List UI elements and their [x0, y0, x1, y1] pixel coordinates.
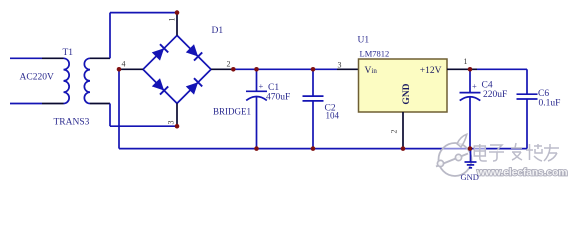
capacitor C1 bottom lead [256, 96, 258, 148]
wire AC source bottom lead [10, 103, 42, 105]
bridge diode bottom-right [186, 82, 198, 94]
svg-text:2: 2 [390, 130, 399, 134]
wire AC source top lead [10, 57, 42, 59]
capacitor C4 curved plate [460, 97, 481, 101]
svg-text:AC220V: AC220V [20, 73, 54, 83]
svg-text:220uF: 220uF [483, 90, 507, 100]
capacitor C4 bottom lead [469, 97, 471, 149]
bridge diode bottom-left [152, 78, 164, 90]
svg-text:4: 4 [122, 60, 126, 69]
wire ground rail [119, 148, 527, 150]
junction bridge pin1 [175, 10, 180, 15]
svg-text:LM7812: LM7812 [360, 49, 390, 59]
svg-text:470uF: 470uF [266, 93, 290, 103]
wire +12V to C6 [477, 68, 527, 70]
bridge pin 4 stub [119, 68, 143, 70]
svg-text:U1: U1 [358, 36, 370, 46]
watermark char 4 [526, 144, 542, 161]
wire secondary top to bridge pin 1 [109, 13, 111, 59]
wire +V rail bridge to U1 [233, 68, 337, 70]
capacitor C6 bottom lead [526, 99, 528, 149]
wire secondary bottom to bridge pin 3 [109, 104, 111, 127]
svg-text:+: + [472, 81, 477, 91]
watermark char 3 [511, 143, 522, 160]
capacitor C6 plates [517, 93, 538, 95]
transformer T1 secondary winding [84, 58, 90, 103]
transformer T1 secondary pin top [90, 57, 110, 59]
junction C1 bottom [254, 146, 259, 151]
svg-text:+12V: +12V [420, 66, 442, 76]
transformer T1 secondary pin bottom [90, 103, 110, 105]
wire bridge pin 4 to ground rail [118, 69, 120, 148]
ground symbol [470, 149, 472, 162]
svg-text:TRANS3: TRANS3 [54, 118, 90, 128]
watermark char 2 [489, 145, 504, 161]
watermark char 1 [474, 144, 487, 161]
svg-text:C1: C1 [268, 83, 279, 93]
capacitor C1 top plate [246, 90, 267, 92]
svg-text:1: 1 [168, 18, 177, 22]
U1 pin 1 stub [447, 68, 477, 70]
junction C1 top [254, 67, 259, 72]
U1 pin 2 stub [402, 112, 404, 149]
svg-text:Vin: Vin [365, 66, 378, 76]
svg-text:2: 2 [227, 60, 231, 69]
junction bridge pin4 [117, 67, 122, 72]
svg-text:0.1uF: 0.1uF [539, 99, 561, 109]
capacitor C2 bottom lead [312, 101, 314, 149]
svg-text:+: + [259, 81, 264, 91]
capacitor C2 top lead [312, 69, 314, 96]
junction C4 top [468, 67, 473, 72]
bridge rectifier D1 diamond outline [143, 35, 211, 103]
regulator U1 body [359, 59, 448, 112]
capacitor C1 curved plate [246, 97, 267, 101]
transformer T1 primary pin bottom [42, 103, 64, 105]
svg-text:104: 104 [326, 111, 340, 121]
capacitor C4 top lead [469, 69, 471, 92]
watermark char 5 [544, 144, 559, 161]
capacitor C1 top lead [256, 69, 258, 91]
bridge pin 2 stub [211, 68, 233, 70]
junction bridge pin3 [175, 124, 180, 129]
svg-text:T1: T1 [63, 48, 74, 58]
svg-text:D1: D1 [212, 26, 224, 36]
watermark logo circle [436, 134, 472, 176]
junction C2 top [311, 67, 316, 72]
capacitor C2 plates [303, 95, 324, 97]
svg-text:C4: C4 [482, 81, 493, 91]
bridge pin 1 stub [176, 13, 178, 36]
bridge pin 3 stub [176, 103, 178, 126]
svg-text:3: 3 [167, 121, 176, 125]
bridge diode top-left [152, 48, 164, 60]
transformer T1 primary pin top [42, 57, 64, 59]
svg-text:3: 3 [338, 61, 342, 70]
svg-text:BRIDGE1: BRIDGE1 [213, 107, 251, 117]
svg-text:GND: GND [402, 83, 412, 104]
junction C2 bottom [311, 146, 316, 151]
svg-text:C6: C6 [538, 89, 549, 99]
svg-text:1: 1 [464, 57, 468, 66]
junction C4 bottom / ground [468, 146, 473, 151]
junction U1 gnd [401, 146, 406, 151]
bridge diode top-right [186, 44, 198, 56]
svg-text:www.elecfans.com: www.elecfans.com [476, 167, 567, 179]
junction bridge pin2 [231, 67, 236, 72]
transformer T1 primary winding [64, 58, 70, 103]
capacitor C4 top plate [460, 92, 481, 94]
U1 pin 3 stub [337, 68, 359, 70]
svg-text:GND: GND [461, 172, 479, 182]
